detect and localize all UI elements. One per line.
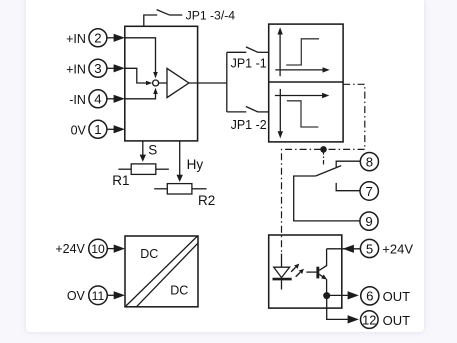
falling step curve: [287, 101, 319, 127]
svg-text:7: 7: [366, 184, 373, 199]
wire terminal 10 to DC/DC: [107, 245, 125, 253]
wire +24V supply into box: [327, 245, 361, 253]
node terminal 2 (+IN): [66, 29, 107, 47]
light arrow 1: [291, 264, 299, 272]
rising step curve: [286, 39, 319, 65]
switch JP1-2 blade: [246, 107, 258, 113]
wire JP1-2 left: [227, 111, 247, 113]
wire to jumper JP1-3/-4: [144, 15, 157, 26]
potentiometer R1: [118, 164, 168, 175]
svg-text:+IN: +IN: [66, 32, 86, 46]
node terminal 4 (-IN): [69, 90, 107, 108]
wire input 4 to summing node: [125, 88, 158, 99]
svg-text:OV: OV: [67, 289, 86, 303]
svg-text:6: 6: [366, 289, 373, 304]
DC/DC diagonal 2: [137, 243, 198, 306]
wire to terminal 12: [327, 295, 359, 323]
op-amp block U1 (amplifier box): [125, 26, 198, 141]
dash-dot actuation link: [282, 84, 365, 253]
potentiometer R2: [154, 184, 206, 194]
svg-text:OUT: OUT: [383, 313, 411, 328]
svg-text:JP1 -2: JP1 -2: [231, 118, 267, 132]
wire JP1-1 left: [227, 51, 247, 53]
wire branch to jumpers: [226, 52, 228, 112]
light arrow 2: [296, 269, 304, 277]
svg-text:10: 10: [91, 242, 105, 256]
wire JP1-2 right: [258, 111, 268, 113]
svg-text:2: 2: [94, 31, 101, 46]
emitter output junction dot: [323, 292, 330, 299]
comparator characteristic box (rising): [269, 24, 343, 142]
node terminal 12 (OUT): [361, 311, 411, 329]
svg-text:-IN: -IN: [69, 93, 86, 107]
junction dot on link: [320, 146, 327, 153]
svg-text:4: 4: [94, 92, 101, 107]
DC/DC diagonal 1: [126, 236, 197, 306]
svg-text:1: 1: [94, 122, 101, 137]
svg-text:+24V: +24V: [382, 241, 413, 256]
wire junction to op-amp: [159, 82, 167, 84]
node terminal 7: [360, 182, 378, 200]
svg-text:DC: DC: [170, 283, 188, 297]
LED D1: [273, 254, 292, 290]
node terminal 11 (OV): [67, 286, 107, 305]
node terminal 9: [360, 212, 378, 230]
node terminal 8: [360, 153, 378, 171]
svg-text:Hy: Hy: [187, 157, 204, 172]
wire input 2 to summing node: [125, 38, 158, 79]
relay contact blade: [316, 166, 342, 176]
node terminal 6 (OUT): [361, 287, 410, 305]
DC/DC converter box: [125, 236, 198, 307]
svg-text:R2: R2: [198, 193, 215, 208]
svg-text:9: 9: [365, 214, 372, 229]
rising threshold graph axes: [275, 27, 329, 76]
node terminal 1 (0V): [71, 120, 107, 138]
wire terminal 2 to box: [107, 34, 125, 42]
optocoupler box: [269, 235, 342, 308]
switch JP1-1 blade: [246, 47, 258, 53]
op-amp triangle: [167, 68, 189, 97]
svg-text:+IN: +IN: [66, 62, 86, 76]
svg-text:5: 5: [366, 241, 373, 256]
wire input 3 to summing node: [125, 68, 152, 85]
wire terminal 11 to DC/DC: [107, 291, 125, 299]
svg-text:3: 3: [94, 61, 101, 76]
svg-text:0V: 0V: [71, 123, 87, 137]
svg-text:S: S: [148, 143, 157, 158]
wire terminal 8 contact: [336, 161, 360, 167]
wire terminal 3 to box: [107, 64, 125, 72]
svg-text:8: 8: [366, 154, 373, 169]
svg-text:11: 11: [92, 289, 105, 303]
svg-text:JP1 -3/-4: JP1 -3/-4: [186, 8, 236, 22]
dash-dot link to relay blade: [323, 150, 325, 166]
node terminal 5 (+24V): [360, 239, 413, 257]
svg-text:+24V: +24V: [55, 242, 85, 256]
switch JP1-3/-4 blade: [157, 10, 170, 16]
wire terminal 4 to box: [107, 95, 125, 103]
svg-text:OUT: OUT: [383, 289, 411, 304]
wire to terminal 6: [327, 291, 359, 299]
phototransistor Q1: [306, 249, 327, 296]
svg-text:JP1 -1: JP1 -1: [231, 57, 267, 71]
svg-text:DC: DC: [140, 247, 158, 261]
wire op-amp output: [189, 82, 227, 84]
wire S adjust stub: [140, 141, 146, 162]
wire JP1-1 right: [258, 51, 268, 53]
wire terminal 7 contact: [336, 183, 360, 191]
falling threshold graph axes: [275, 89, 329, 138]
wire right of JP1-3/-4: [170, 14, 182, 16]
summing node junction: [153, 80, 159, 86]
wire relay pivot to terminal 9: [294, 176, 361, 221]
svg-text:12: 12: [362, 312, 376, 327]
svg-text:R1: R1: [112, 173, 129, 188]
node terminal 3 (+IN): [66, 59, 107, 77]
wire Hy adjust stub: [177, 141, 183, 182]
wire terminal 1 to box: [107, 125, 125, 133]
node terminal 10 (+24V): [55, 239, 107, 258]
